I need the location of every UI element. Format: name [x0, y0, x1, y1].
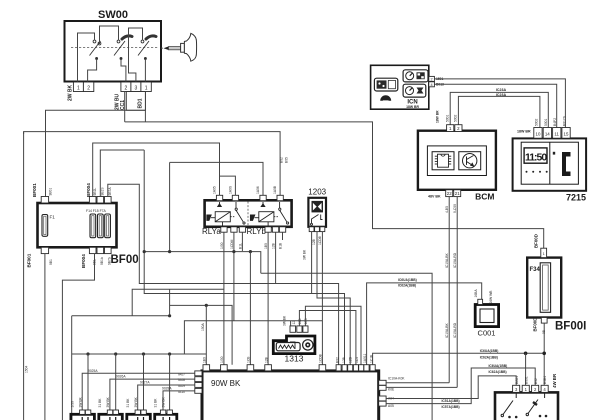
svg-text:1B0: 1B0	[203, 357, 207, 363]
svg-text:BF00D: BF00D	[533, 318, 538, 332]
svg-text:9B01: 9B01	[49, 188, 53, 196]
svg-text:1A0S: 1A0S	[228, 185, 232, 194]
wire: 1313 pin1 feed	[290, 321, 292, 326]
svg-text:12D: 12D	[298, 318, 302, 325]
svg-text:3W BK: 3W BK	[134, 396, 138, 407]
svg-text:2: 2	[431, 77, 433, 81]
wire: staircase to connector 2	[110, 379, 195, 410]
svg-text:31 BK: 31 BK	[154, 398, 158, 408]
BF00D top pin	[541, 248, 547, 257]
svg-text:1: 1	[543, 252, 545, 256]
wire: battery line A to fuse F1	[46, 110, 146, 196]
svg-text:16BA: 16BA	[474, 289, 478, 298]
wire: BF004 F7A up and over	[108, 184, 339, 365]
svg-text:IC10A-BK: IC10A-BK	[445, 323, 449, 338]
wire: RLYb coil feed	[170, 162, 263, 195]
horn relay 1203	[308, 188, 326, 227]
svg-text:21: 21	[455, 191, 460, 196]
fuse F1	[42, 215, 48, 237]
svg-text:9028A: 9028A	[162, 387, 172, 391]
7215 pin 15	[562, 128, 570, 139]
SW00 pin 2 (right)	[121, 82, 131, 92]
BCM pin 2	[455, 125, 462, 132]
svg-text:31 BK: 31 BK	[98, 398, 102, 408]
relay module box	[202, 200, 292, 236]
instrument cluster ICN	[371, 65, 429, 109]
wire: staircase to connector 4	[163, 391, 195, 410]
wire: staircase to connector 1	[82, 373, 195, 410]
svg-text:3W BK: 3W BK	[282, 315, 286, 326]
svg-text:31 BK: 31 BK	[126, 398, 130, 408]
90W BK top pins	[203, 365, 210, 371]
svg-text:18W BR: 18W BR	[517, 130, 531, 134]
switch contact 1	[90, 40, 101, 59]
svg-text:4W BR: 4W BR	[552, 373, 557, 388]
svg-text:9B1: 9B1	[49, 259, 53, 265]
svg-text:B4P2: B4P2	[553, 118, 557, 126]
fuse holder BF00I	[527, 258, 586, 333]
svg-text:IC23A: IC23A	[496, 93, 507, 97]
svg-text:B05: B05	[285, 157, 289, 163]
wire: BD1 pin down	[144, 92, 146, 122]
wire: junction down to 90W BK pin	[249, 252, 251, 365]
wire: BCM pin22 down	[448, 197, 450, 383]
switch pin 4	[541, 385, 548, 392]
SW00 pin 1 (left)	[73, 82, 83, 92]
svg-text:1C0: 1C0	[355, 357, 359, 363]
horn symbol	[161, 33, 197, 61]
svg-text:K0E: K0E	[388, 387, 395, 391]
connector block 1	[71, 410, 95, 420]
wire: ICN pin4 to 7215 pin11	[434, 84, 556, 127]
svg-text:IC10A-BK: IC10A-BK	[445, 253, 449, 268]
wire: staircase to connector 3	[138, 385, 195, 410]
svg-text:IC6UA(1BB): IC6UA(1BB)	[398, 278, 417, 282]
SW00 pin 1 (right)	[141, 82, 151, 92]
svg-text:12D: 12D	[349, 356, 353, 363]
svg-text:1CDM: 1CDM	[230, 239, 234, 249]
svg-text:9B1b: 9B1b	[100, 257, 104, 265]
wire: 1313 pin2 hook to 90W BK	[299, 311, 356, 365]
wire: vertical junction feed	[169, 162, 171, 251]
svg-text:IC6UA(1BB): IC6UA(1BB)	[489, 364, 508, 368]
svg-text:IC62A(1BB): IC62A(1BB)	[480, 355, 498, 359]
svg-text:BF00I: BF00I	[555, 321, 586, 333]
90W BK right pins	[379, 380, 386, 385]
junction bus under relays	[144, 252, 261, 274]
wire: CC1 pin down to main feed line	[124, 92, 126, 122]
BCM pin 22	[446, 190, 453, 197]
svg-text:15: 15	[564, 131, 569, 136]
svg-text:BA01: BA01	[515, 376, 519, 384]
svg-text:F1: F1	[50, 215, 56, 220]
svg-text:1/30: 1/30	[71, 401, 75, 408]
svg-text:A05: A05	[388, 404, 394, 408]
svg-text:1B0: 1B0	[264, 243, 268, 249]
fuse F15	[98, 214, 104, 238]
svg-text:2: 2	[125, 85, 128, 91]
svg-text:12: 12	[292, 321, 296, 325]
svg-text:12B: 12B	[312, 238, 316, 245]
wire: right pin B to BCM	[386, 386, 457, 388]
wire: RLYa pin3 down	[241, 232, 243, 251]
svg-text:RLYb: RLYb	[247, 227, 267, 236]
svg-text:9B1L: 9B1L	[93, 188, 97, 196]
svg-text:4-B5: 4-B5	[445, 206, 449, 213]
svg-text:10: 10	[536, 131, 541, 136]
wire: 1203 pin3 down to 90W BK	[321, 232, 323, 365]
svg-text:BF004: BF004	[86, 183, 91, 197]
svg-text:IC51A(1BB): IC51A(1BB)	[442, 399, 460, 403]
wire: right pin C staircase to switch pin3	[386, 376, 516, 399]
wire: main feed line to F34	[125, 122, 544, 248]
svg-text:18W BR: 18W BR	[406, 105, 419, 109]
svg-text:22: 22	[447, 191, 452, 196]
svg-text:1203: 1203	[308, 188, 326, 197]
svg-text:16W WB: 16W WB	[489, 290, 493, 304]
svg-text:IC57A(1BB): IC57A(1BB)	[442, 405, 460, 409]
svg-text:IC62A(1BB): IC62A(1BB)	[398, 283, 416, 287]
svg-text:RLYa: RLYa	[202, 227, 221, 236]
switch contact 2 with cam	[114, 36, 132, 60]
wire: IC23A BCM pin2 to 7215 pin10	[458, 96, 540, 127]
mechanical link dashed line	[71, 47, 158, 49]
wire: ICN pin2 to 7215 pin15	[434, 79, 565, 128]
svg-text:F34: F34	[530, 267, 541, 273]
svg-text:5002: 5002	[454, 114, 458, 122]
svg-text:1CDB: 1CDB	[318, 235, 322, 245]
svg-text:BF001: BF001	[32, 183, 37, 197]
svg-text:IC6UA(1BB): IC6UA(1BB)	[480, 349, 499, 353]
connector block 2	[99, 410, 123, 420]
7215 pin 11	[553, 128, 561, 139]
svg-text:B02: B02	[534, 378, 538, 384]
wire: BCM pin21 down	[456, 197, 458, 388]
ignition switch box bottom right	[495, 392, 558, 420]
BF00 top pin (F1)	[41, 197, 48, 204]
svg-text:3W BK: 3W BK	[79, 396, 83, 407]
svg-text:9026A: 9026A	[116, 375, 126, 379]
svg-text:BF00D: BF00D	[533, 234, 538, 248]
svg-text:B001: B001	[524, 376, 528, 384]
svg-text:1CB: 1CB	[247, 356, 251, 363]
SW00 pin 3	[131, 82, 141, 92]
svg-text:1A06: 1A06	[256, 186, 260, 194]
svg-text:IC10A-K0K: IC10A-K0K	[388, 377, 405, 381]
connector frame BD1	[126, 92, 145, 111]
7215 pin 14	[543, 128, 551, 139]
svg-text:150A: 150A	[201, 322, 205, 331]
svg-text:3W BK: 3W BK	[106, 396, 110, 407]
svg-text:BF00: BF00	[111, 254, 139, 266]
heater unit 1313	[273, 336, 315, 364]
svg-text:1313: 1313	[285, 354, 304, 364]
svg-text:IC10A-RD: IC10A-RD	[453, 322, 457, 338]
svg-text:1A0B: 1A0B	[273, 185, 277, 194]
switch pin 3	[513, 385, 520, 392]
wire: RLYa NO contact down to horn line	[233, 232, 235, 321]
svg-text:5001: 5001	[446, 114, 450, 122]
switch pin 2	[532, 385, 539, 392]
ICN pin 4	[429, 82, 435, 87]
svg-text:BF004: BF004	[81, 254, 86, 268]
1313 pins	[290, 326, 296, 332]
fuse F7A	[105, 214, 111, 238]
svg-text:3: 3	[135, 85, 138, 91]
wire: feed bus upper	[170, 305, 233, 364]
RLYa bottom pins	[221, 227, 227, 232]
fuse F14	[90, 214, 96, 238]
svg-text:5001: 5001	[544, 118, 548, 126]
svg-text:1A05: 1A05	[213, 186, 217, 194]
ICN pin 2	[429, 76, 435, 81]
wire: RLYb common down to 90W BK	[267, 232, 269, 365]
svg-text:1/30: 1/30	[220, 356, 224, 363]
svg-text:12B: 12B	[342, 356, 346, 363]
wire: right pin D staircase to switch pin2	[386, 368, 535, 404]
svg-text:1/30: 1/30	[220, 242, 224, 249]
wire: right pin A to BCM	[386, 382, 449, 384]
svg-text:SW00: SW00	[98, 9, 128, 21]
svg-text:7215: 7215	[566, 193, 586, 203]
wire: BF004 F15 up over	[100, 150, 144, 197]
wire: left long vertical from line	[23, 132, 25, 420]
90W BK left pins	[195, 371, 202, 376]
BF00D bottom pin	[541, 318, 547, 324]
svg-text:18W BR: 18W BR	[436, 110, 440, 123]
wire: 90W BK pin to C001	[367, 283, 482, 365]
wire: ground bus to connectors	[72, 353, 207, 355]
wire: drops from ground bus to connector pins	[87, 354, 89, 410]
svg-text:1A011: 1A011	[363, 354, 367, 363]
wire: IC23A BCM pin1 to 7215 pin14	[450, 92, 548, 127]
7215 pin 10	[534, 128, 542, 139]
wire: cross line	[132, 289, 224, 316]
svg-text:1504: 1504	[25, 365, 29, 373]
svg-text:3W BK: 3W BK	[302, 249, 306, 260]
wire: drop to switch pin1	[525, 353, 527, 385]
svg-text:4: 4	[431, 83, 433, 87]
svg-text:IC10A-RD: IC10A-RD	[453, 252, 457, 268]
ECU 90W BK	[202, 371, 379, 420]
svg-text:B02: B02	[336, 357, 340, 363]
wire: riser stub	[169, 289, 171, 316]
svg-text:BCM: BCM	[475, 192, 494, 202]
RLYb coil top pin	[260, 195, 266, 200]
svg-text:BD1: BD1	[138, 98, 144, 108]
svg-text:C001: C001	[478, 329, 496, 338]
wire: horn line	[184, 321, 322, 354]
wire: 1203 pin1 drop to line	[311, 232, 313, 294]
wire: RLYa common down to 90W BK	[223, 232, 225, 365]
svg-text:2W BK: 2W BK	[68, 85, 74, 102]
internal wiring of SW00	[78, 26, 146, 82]
wire: RLYb NO drop to line	[275, 232, 277, 283]
svg-text:9B1S: 9B1S	[101, 187, 105, 196]
SW00 pin 2 (left)	[83, 82, 93, 92]
svg-text:F14 F15 F7A: F14 F15 F7A	[86, 209, 107, 213]
relay RLYa internals	[207, 202, 245, 226]
wire: RLYa bracket	[220, 176, 236, 195]
C001 pin	[478, 299, 483, 304]
connector block 3	[127, 410, 151, 420]
wire: vertical from bus to 90W BK first pin	[205, 305, 207, 364]
RLYa coil top pin	[216, 195, 222, 200]
switch assembly SW00	[65, 9, 162, 82]
svg-text:12B: 12B	[264, 356, 268, 363]
svg-text:9025A: 9025A	[88, 369, 98, 373]
wire: 1313 pin3 hook to 90W BK	[305, 306, 361, 364]
svg-text:9-C09: 9-C09	[453, 204, 457, 213]
wire: left bus vertical	[71, 316, 73, 420]
fuse box BF00	[38, 203, 117, 247]
connector block 4	[155, 410, 177, 420]
svg-text:9027A: 9027A	[140, 381, 150, 385]
svg-text:B1B: B1B	[279, 242, 283, 249]
BF00 bottom pins	[41, 247, 48, 253]
svg-text:B017S: B017S	[563, 115, 567, 126]
svg-text:12B: 12B	[272, 242, 276, 249]
wire: 1203 pin2 hook to 90W BK	[317, 232, 350, 365]
wire: RLYb pin3 down	[282, 232, 284, 240]
wire: F15 branch nested corner	[144, 150, 344, 365]
wire: F34 output down to switch	[543, 323, 545, 385]
BCM pin 21	[454, 190, 461, 197]
svg-text:90W BK: 90W BK	[211, 379, 241, 388]
svg-text:11: 11	[554, 131, 559, 136]
svg-text:1CDB: 1CDB	[319, 353, 323, 363]
svg-text:3W BK: 3W BK	[162, 396, 166, 407]
switch pin 1	[522, 385, 529, 392]
body computer BCM	[418, 131, 496, 202]
RLYa switch top pin	[232, 195, 238, 200]
svg-text:14: 14	[545, 131, 550, 136]
wire: line to RLYb switch pin	[24, 132, 281, 196]
wire: ground bus line to 90W BK	[373, 353, 545, 364]
relay RLYb internals	[250, 202, 288, 226]
svg-text:BF001: BF001	[27, 253, 32, 267]
svg-text:IC23A: IC23A	[496, 88, 507, 92]
svg-text:B02: B02	[280, 157, 284, 163]
svg-text:B1L: B1L	[239, 243, 243, 249]
svg-text:9B7A: 9B7A	[108, 187, 112, 196]
wire: staircase to IC6UA bus	[261, 273, 432, 420]
svg-text:B0B4: B0B4	[543, 376, 547, 384]
svg-text:2: 2	[87, 85, 90, 91]
1203 pins	[309, 227, 314, 232]
svg-text:1: 1	[145, 85, 148, 91]
BF00 top pins (right fuses)	[89, 197, 96, 204]
RLYb bottom pins	[265, 227, 271, 232]
svg-text:1C0: 1C0	[304, 318, 308, 324]
connector C001	[475, 305, 498, 338]
switch contact 3 with cam	[138, 36, 156, 60]
clock unit 7215	[513, 138, 587, 202]
wire: BF004 F14 bottom staircase	[62, 254, 94, 420]
svg-text:CC1: CC1	[120, 100, 126, 110]
wire: feed bus middle	[72, 315, 170, 317]
svg-text:IC62A(1BB): IC62A(1BB)	[489, 370, 507, 374]
RLYb switch top pin	[277, 195, 283, 200]
wire: BF004 F14 to RLYa coil	[93, 143, 220, 197]
wire: BF001 bottom long vertical	[44, 254, 46, 420]
svg-text:5002: 5002	[535, 118, 539, 126]
svg-text:11:50: 11:50	[525, 151, 547, 163]
svg-text:48V BK: 48V BK	[428, 194, 441, 198]
BCM pin 1	[447, 125, 454, 132]
svg-text:1: 1	[77, 85, 80, 91]
